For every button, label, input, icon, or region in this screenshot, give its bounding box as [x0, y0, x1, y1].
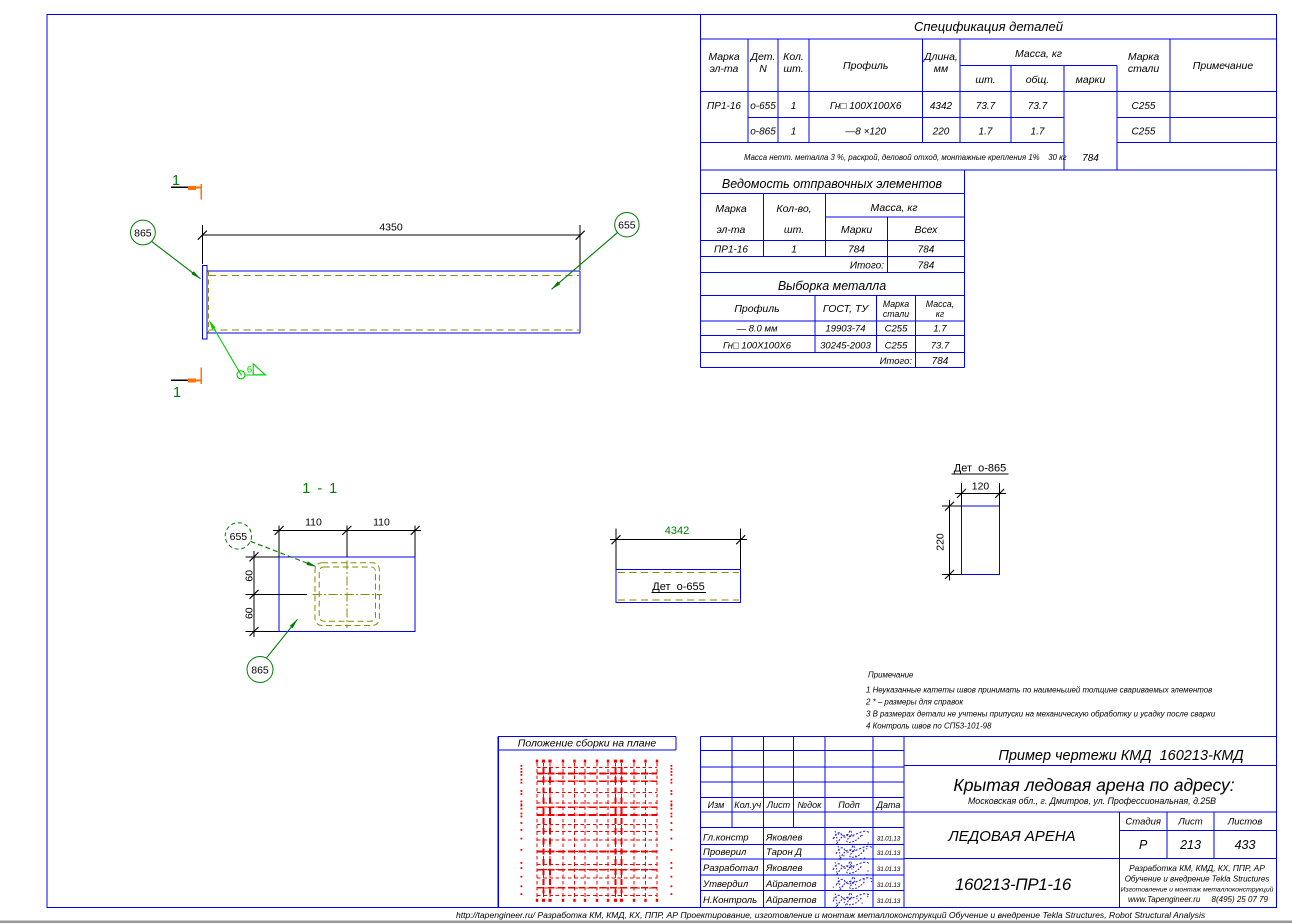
svg-text:шт.: шт. [784, 224, 804, 236]
svg-text:С255: С255 [885, 324, 908, 335]
svg-text:1 - 1: 1 - 1 [302, 481, 339, 497]
svg-text:шт.: шт. [975, 74, 995, 86]
section cut mark 1 (top) [171, 186, 196, 188]
svg-text:марки: марки [1076, 74, 1106, 86]
svg-text:213: 213 [1179, 838, 1201, 852]
leader to plate [266, 619, 297, 658]
svg-text:стали: стали [1128, 63, 1160, 75]
svg-text:Кол.уч: Кол.уч [734, 800, 761, 810]
svg-text:Крытая ледовая арена по адресу: Крытая ледовая арена по адресу: [953, 775, 1234, 795]
svg-text:общ.: общ. [1026, 74, 1050, 86]
detail o-655 tube outline [616, 570, 741, 603]
svg-text:Профиль: Профиль [734, 303, 779, 315]
svg-text:Изготовление и монтаж металлок: Изготовление и монтаж металлоконструкций [1121, 886, 1274, 894]
svg-text:Марка: Марка [708, 51, 740, 63]
dimension 60+60 (left) [246, 556, 280, 558]
svg-text:Н.Контроль: Н.Контроль [703, 895, 757, 906]
svg-text:№док: №док [797, 800, 822, 810]
svg-text:31.01.13: 31.01.13 [877, 898, 901, 905]
svg-text:160213-ПР1-16: 160213-ПР1-16 [955, 875, 1072, 894]
svg-text:8(495) 25 07 79: 8(495) 25 07 79 [1212, 895, 1269, 904]
svg-text:655: 655 [618, 220, 636, 232]
svg-text:31.01.13: 31.01.13 [877, 866, 901, 873]
svg-text:73.7: 73.7 [1028, 101, 1048, 112]
svg-text:— 8.0 мм: — 8.0 мм [735, 324, 777, 335]
svg-text:Длина,: Длина, [923, 51, 958, 63]
weld symbol leader [211, 323, 242, 376]
title block grid [701, 735, 1277, 737]
svg-text:Марка: Марка [883, 299, 909, 309]
svg-text:Изм: Изм [708, 800, 725, 810]
detail o-865: dimension 120 [961, 483, 963, 506]
svg-text:4342: 4342 [665, 525, 689, 537]
svg-text:кг: кг [936, 309, 945, 319]
svg-text:о-865: о-865 [750, 127, 776, 138]
svg-text:Масса,: Масса, [926, 299, 954, 309]
leader to tube [552, 233, 618, 290]
svg-text:110: 110 [373, 517, 390, 529]
balloon 655 (section) dashed [225, 523, 251, 549]
hidden lines of tube [209, 275, 579, 277]
svg-text:220: 220 [932, 127, 950, 138]
balloon 865 (elevation) [131, 220, 156, 245]
svg-text:ПР1-16: ПР1-16 [714, 245, 748, 256]
leader to end plate [152, 241, 201, 278]
svg-text:мм: мм [934, 63, 948, 75]
beam tube o-655 (elevation) [207, 270, 580, 272]
svg-text:—8 ×120: —8 ×120 [844, 127, 886, 138]
detail o-865: dimension 220 [942, 505, 962, 507]
svg-text:Примечание: Примечание [868, 671, 914, 680]
svg-text:1: 1 [791, 101, 797, 112]
svg-text:865: 865 [251, 665, 269, 677]
svg-text:Дет о-655: Дет о-655 [652, 581, 705, 593]
weld symbol [237, 371, 245, 379]
svg-text:Профиль: Профиль [843, 60, 888, 72]
section cut mark 1 (bottom) [171, 379, 196, 381]
svg-text:Листов: Листов [1227, 817, 1263, 828]
svg-text:Масса, кг: Масса, кг [870, 202, 917, 214]
svg-text:ГОСТ, ТУ: ГОСТ, ТУ [823, 303, 869, 315]
svg-text:Дет о-865: Дет о-865 [954, 463, 1007, 475]
svg-text:73.7: 73.7 [976, 101, 996, 112]
svg-text:Марка: Марка [715, 203, 747, 215]
svg-text:Гн□ 100Х100Х6: Гн□ 100Х100Х6 [830, 101, 902, 112]
detail o-865 plate outline [962, 506, 1000, 574]
svg-text:110: 110 [305, 517, 322, 529]
svg-text:1.7: 1.7 [1031, 127, 1045, 138]
table: metal takeoff [700, 273, 702, 368]
svg-text:4350: 4350 [379, 222, 403, 234]
svg-text:4 Контроль швов по СП53-101-9: 4 Контроль швов по СП53-101-98 [866, 722, 992, 731]
svg-text:шт.: шт. [783, 63, 803, 75]
svg-text:655: 655 [230, 531, 248, 543]
svg-text:220: 220 [935, 533, 947, 551]
svg-text:60: 60 [244, 607, 256, 619]
svg-text:Ведомость отправочных элементо: Ведомость отправочных элементов [722, 177, 943, 191]
svg-text:Примечание: Примечание [1193, 60, 1254, 72]
svg-text:Кол-во,: Кол-во, [776, 203, 811, 215]
svg-text:Яковлев: Яковлев [765, 833, 803, 844]
hidden tube cross-section [315, 563, 379, 626]
detail o-655: dimension 4342 [615, 529, 617, 570]
svg-text:433: 433 [1235, 838, 1256, 852]
svg-text:Айрапетов: Айрапетов [765, 879, 817, 890]
svg-text:Масса нетт. металла 3 %, раскр: Масса нетт. металла 3 %, раскрой, делово… [744, 153, 1067, 162]
svg-text:Спецификация деталей: Спецификация деталей [914, 19, 1063, 34]
svg-text:Проверил: Проверил [703, 847, 747, 858]
table: list of shipping elements [701, 192, 965, 194]
svg-text:30245-2003: 30245-2003 [820, 341, 871, 352]
svg-text:Обучение и внедрение Tekla St: Обучение и внедрение Tekla Structures [1125, 875, 1270, 884]
svg-text:1: 1 [791, 127, 797, 138]
svg-text:31.01.13: 31.01.13 [877, 882, 901, 889]
svg-text:Дата: Дата [876, 800, 901, 810]
svg-text:31.01.13: 31.01.13 [877, 850, 901, 857]
svg-text:19903-74: 19903-74 [825, 324, 865, 335]
svg-text:6: 6 [247, 365, 252, 376]
svg-text:Гн□ 100Х100Х6: Гн□ 100Х100Х6 [723, 341, 792, 352]
svg-text:Лист: Лист [1177, 817, 1203, 828]
dimension 110+110 (top) [278, 526, 280, 557]
svg-text:1 Неуказанные катеты швов при: 1 Неуказанные катеты швов принимать по н… [866, 686, 1212, 695]
svg-text:784: 784 [918, 245, 935, 256]
svg-text:1: 1 [172, 173, 180, 189]
svg-text:Кол.: Кол. [783, 51, 804, 63]
svg-text:Лист: Лист [766, 800, 791, 810]
svg-text:Московская обл., г. Дмитров, у: Московская обл., г. Дмитров, ул. Професс… [968, 796, 1216, 806]
svg-text:Положение сборки на плане: Положение сборки на плане [518, 738, 657, 750]
svg-text:784: 784 [918, 261, 935, 272]
table: specification of details [701, 38, 1277, 40]
svg-text:Разработка КМ, КМД, КХ, ППР, А: Разработка КМ, КМД, КХ, ППР, АР [1129, 863, 1265, 873]
svg-text:60: 60 [244, 570, 256, 582]
svg-text:Пример чертежи КМД 160213-КМД: Пример чертежи КМД 160213-КМД [998, 748, 1243, 764]
svg-text:о-655: о-655 [750, 101, 776, 112]
svg-text:784: 784 [1082, 153, 1099, 164]
svg-text:С255: С255 [1132, 101, 1156, 112]
assembly position box [497, 737, 499, 908]
svg-text:Марки: Марки [841, 224, 873, 236]
svg-text:1: 1 [173, 385, 181, 401]
svg-text:Итого:: Итого: [850, 261, 884, 272]
svg-text:4342: 4342 [930, 101, 953, 112]
svg-text:http://tapengineer.ru/ Разраб: http://tapengineer.ru/ Разработка КМ, КМ… [456, 910, 1206, 920]
svg-text:3 В размерах детали не учтены: 3 В размерах детали не учтены припуски н… [866, 710, 1216, 719]
svg-text:эл-та: эл-та [710, 63, 739, 75]
svg-text:Подп: Подп [838, 800, 860, 810]
balloon 655 (elevation) [615, 213, 639, 237]
svg-text:Яковлев: Яковлев [765, 863, 803, 874]
svg-text:Разработал: Разработал [703, 863, 759, 874]
svg-text:Масса, кг: Масса, кг [1015, 48, 1062, 60]
svg-text:N: N [759, 63, 767, 75]
svg-text:Стадия: Стадия [1125, 817, 1161, 828]
svg-text:Тарон Д: Тарон Д [766, 847, 802, 858]
svg-text:31.01.13: 31.01.13 [877, 836, 901, 843]
svg-text:эл-та: эл-та [717, 224, 746, 236]
svg-text:73.7: 73.7 [931, 341, 950, 352]
svg-text:www.Tapengineer.ru: www.Tapengineer.ru [1128, 895, 1201, 904]
end plate o-865 (elevation) [203, 265, 208, 339]
svg-text:784: 784 [848, 245, 865, 256]
red plan grid [521, 760, 673, 902]
svg-text:Всех: Всех [915, 224, 939, 236]
end plate in section 1-1 [279, 557, 415, 632]
svg-text:865: 865 [134, 228, 152, 240]
svg-text:Итого:: Итого: [880, 356, 913, 367]
svg-text:Выборка металла: Выборка металла [778, 279, 886, 293]
dashed leader to tube corner [251, 541, 317, 567]
svg-text:Дет.: Дет. [750, 51, 776, 63]
svg-text:С255: С255 [885, 341, 908, 352]
svg-text:Марка: Марка [1128, 51, 1160, 63]
svg-text:1: 1 [791, 245, 797, 256]
svg-text:Утвердил: Утвердил [702, 879, 749, 890]
svg-text:2 * – размеры для справок: 2 * – размеры для справок [865, 698, 963, 707]
svg-text:ПР1-16: ПР1-16 [707, 101, 741, 112]
svg-text:С255: С255 [1132, 127, 1156, 138]
window bottom edge [0, 921, 1292, 923]
svg-text:1.7: 1.7 [979, 127, 993, 138]
svg-text:Р: Р [1139, 838, 1148, 852]
balloon 865 (section) [247, 657, 273, 683]
svg-text:1.7: 1.7 [933, 324, 947, 335]
dimension 4350 [201, 225, 203, 264]
centerlines of tube [346, 561, 348, 628]
svg-text:Айрапетов: Айрапетов [765, 895, 817, 906]
signatures (blue scribbles) [833, 830, 873, 908]
svg-text:Гл.констр: Гл.констр [703, 833, 749, 844]
svg-text:стали: стали [883, 309, 909, 319]
svg-text:120: 120 [972, 481, 990, 493]
svg-text:ЛЕДОВАЯ АРЕНА: ЛЕДОВАЯ АРЕНА [947, 828, 1075, 845]
svg-text:784: 784 [932, 356, 949, 367]
